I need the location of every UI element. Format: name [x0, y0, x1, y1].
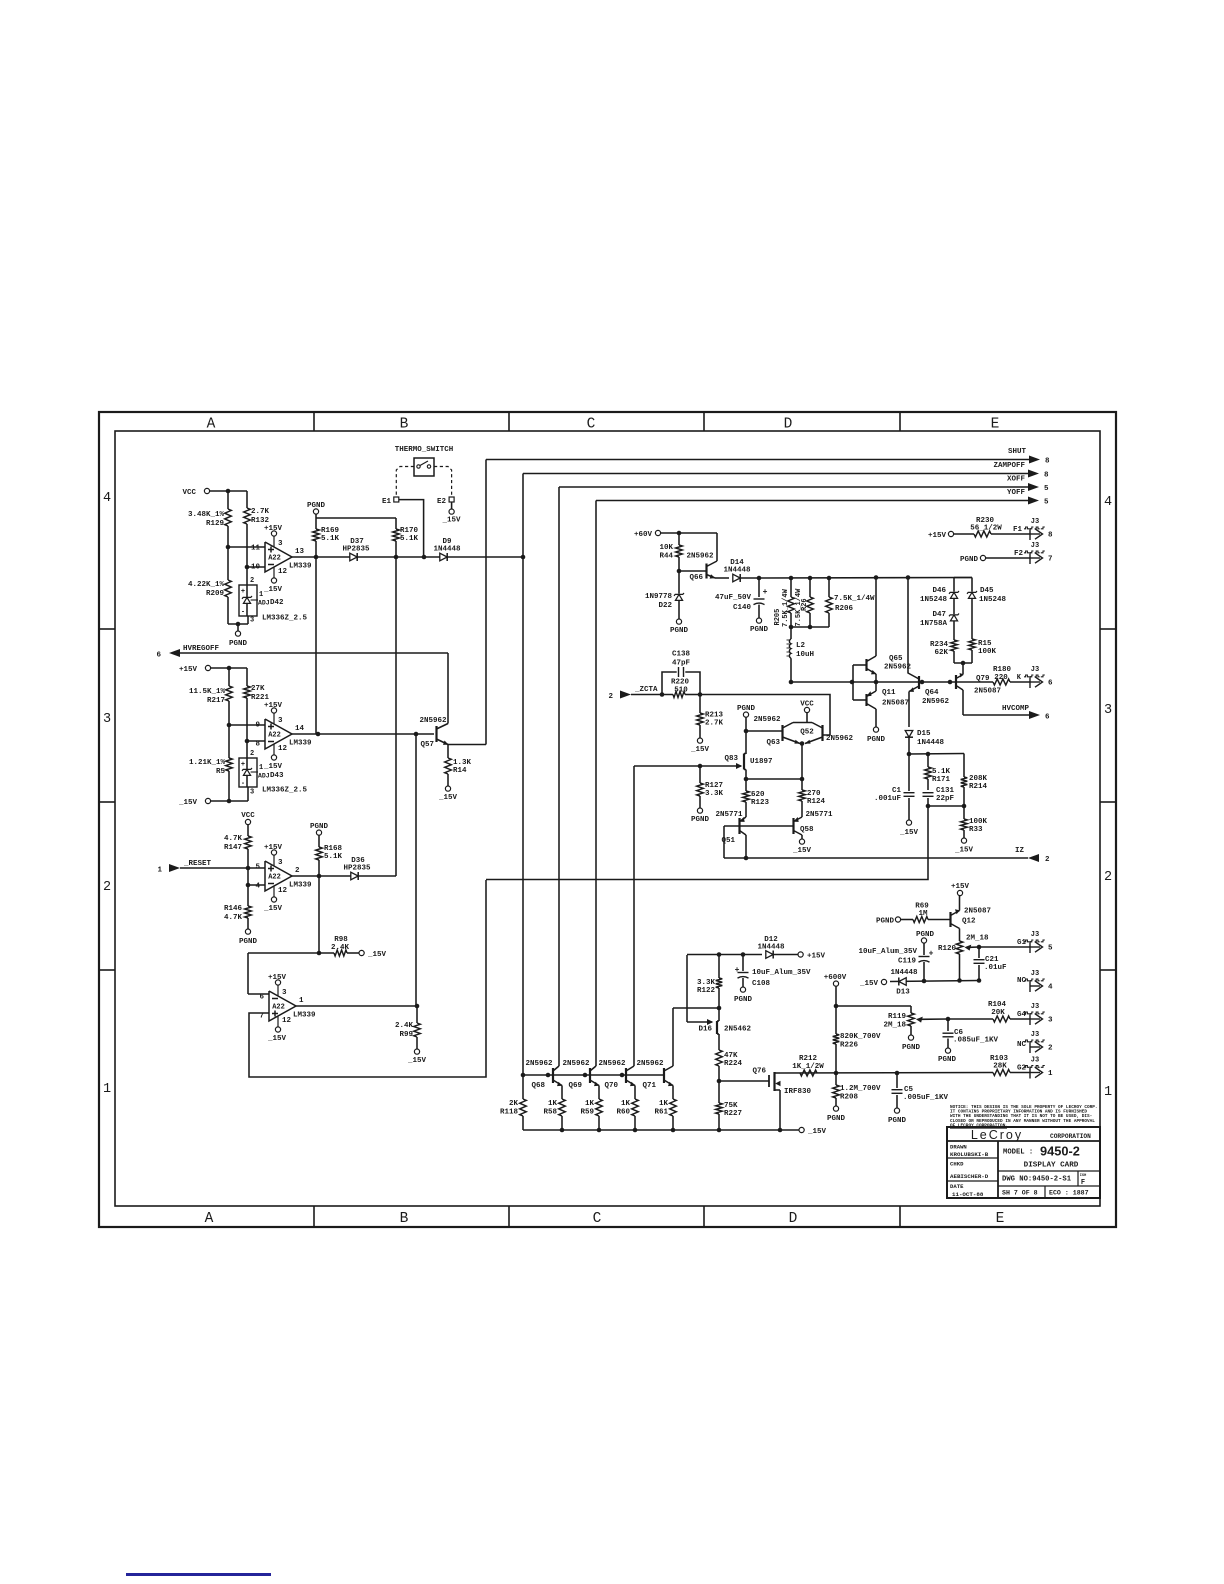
svg-text:3.3K: 3.3K: [697, 979, 716, 987]
svg-text:_15V: _15V: [263, 905, 283, 913]
zener D45 1N5248: [954, 577, 972, 579]
svg-text:PGND: PGND: [888, 1117, 907, 1125]
inductor L2 10uH: [790, 627, 792, 639]
terminal E1: [394, 497, 399, 502]
svg-text:R234: R234: [930, 641, 949, 649]
svg-text:9450-2: 9450-2: [1040, 1144, 1080, 1159]
svg-text:D: D: [784, 417, 793, 433]
wire comparator2 output: [292, 733, 434, 735]
svg-text:PGND: PGND: [229, 640, 248, 648]
svg-text:1: 1: [259, 764, 263, 772]
svg-text:+: +: [241, 761, 245, 769]
svg-text:+: +: [735, 966, 740, 975]
transistor D16 2N5462 jfet: [716, 1021, 718, 1034]
power terminal _15V bottom bus: [799, 1127, 804, 1132]
wire +15V rail block B: [211, 667, 247, 669]
svg-text:PGND: PGND: [310, 823, 329, 831]
wire _15V bottom bus: [523, 1129, 799, 1131]
wire E1 to comparator output: [399, 500, 424, 557]
svg-text:7.5K_1/4W: 7.5K_1/4W: [834, 595, 875, 603]
svg-text:2N5771: 2N5771: [805, 811, 833, 819]
svg-text:R33: R33: [969, 826, 983, 834]
svg-text:C119: C119: [898, 958, 917, 966]
svg-text:2N5962: 2N5962: [562, 1060, 590, 1068]
transistor Q71 2N5962: [663, 1068, 665, 1083]
svg-text:_15V: _15V: [263, 586, 283, 594]
svg-text:3: 3: [250, 789, 254, 797]
svg-text:270: 270: [807, 790, 821, 798]
svg-text:R180: R180: [993, 666, 1012, 674]
svg-text:R5: R5: [216, 768, 226, 776]
svg-text:+15V: +15V: [264, 702, 283, 710]
power terminal +15V D12: [798, 952, 803, 957]
wire Q65 Q11 base bracket: [852, 665, 854, 700]
ground terminal PGND C140: [756, 618, 761, 623]
power terminal _15V R14: [445, 786, 450, 791]
svg-text:1N4448: 1N4448: [890, 969, 918, 977]
ground terminal PGND R146: [245, 929, 250, 934]
svg-text:2M_18: 2M_18: [883, 1022, 906, 1030]
svg-text:R214: R214: [969, 783, 988, 791]
svg-text:1N4448: 1N4448: [433, 546, 461, 554]
svg-text:1N4448: 1N4448: [723, 567, 751, 575]
transistor Q83 U1897 jfet: [743, 754, 745, 770]
svg-text:Q11: Q11: [882, 689, 896, 697]
svg-text:4: 4: [1104, 495, 1112, 510]
svg-text:1N5248: 1N5248: [979, 596, 1007, 604]
svg-text:_15V: _15V: [407, 1057, 427, 1065]
svg-text:LM339: LM339: [289, 563, 312, 571]
svg-text:5: 5: [1044, 499, 1049, 507]
resistor R220: [660, 692, 665, 697]
svg-text:1N5248: 1N5248: [920, 596, 948, 604]
svg-text:R98: R98: [334, 936, 348, 944]
power terminal _15V block B: [246, 741, 248, 758]
svg-text:LM339: LM339: [289, 882, 312, 890]
svg-text:3: 3: [278, 859, 283, 867]
resistor R205: [790, 578, 792, 597]
svg-text:G1: G1: [1017, 939, 1027, 947]
svg-text:R132: R132: [251, 517, 270, 525]
svg-text:_15V: _15V: [267, 1035, 287, 1043]
transistor Q12 2N5087: [949, 912, 951, 927]
wire F2: [986, 557, 1030, 559]
svg-text:_ZCTA: _ZCTA: [634, 686, 658, 694]
svg-text:B: B: [400, 417, 409, 433]
border frame inner: [115, 431, 1100, 1206]
svg-text:7.5K_1/4W: 7.5K_1/4W: [782, 588, 790, 627]
svg-text:_RESET: _RESET: [183, 860, 212, 868]
svg-text:F1: F1: [1013, 526, 1023, 534]
svg-text:11-OCT-88: 11-OCT-88: [952, 1191, 984, 1198]
wire Q65 collector: [875, 578, 877, 657]
svg-text:1K_1/2W: 1K_1/2W: [792, 1063, 824, 1071]
wire Q71 net to R122 D16 node: [673, 1007, 719, 1009]
svg-text:IZ: IZ: [1015, 847, 1025, 855]
resistor R123: [745, 779, 747, 791]
resistor R26: [809, 578, 811, 597]
svg-text:4.22K_1%: 4.22K_1%: [188, 581, 225, 589]
signal HVCOMP: [963, 714, 1029, 716]
svg-text:2.7K: 2.7K: [705, 720, 724, 728]
resistor R221: [246, 668, 248, 686]
svg-text:11.5K_1%: 11.5K_1%: [189, 688, 226, 696]
resistor R132: [246, 491, 248, 508]
svg-text:Q52: Q52: [800, 729, 814, 737]
wire R98 node to op-amp4 pin 6: [247, 953, 249, 994]
svg-text:HVCOMP: HVCOMP: [1002, 705, 1030, 713]
resistor R98: [248, 952, 334, 954]
resistor R103 28K: [993, 1070, 1010, 1076]
svg-text:47pF: 47pF: [672, 660, 691, 668]
svg-text:ZAMPOFF: ZAMPOFF: [993, 462, 1025, 470]
svg-text:Q68: Q68: [531, 1082, 545, 1090]
svg-text:ADJ: ADJ: [258, 600, 270, 607]
svg-text:12: 12: [278, 568, 288, 576]
resistor R169: [315, 514, 317, 529]
svg-text:3: 3: [1104, 703, 1112, 718]
power terminal _15V R33: [961, 838, 966, 843]
resistor R234: [951, 640, 958, 651]
svg-text:+15V: +15V: [951, 883, 970, 891]
svg-text:E: E: [991, 417, 1000, 433]
svg-text:L2: L2: [796, 642, 806, 650]
wire HV output node: [780, 1072, 993, 1075]
resistor R69 1M: [895, 917, 900, 922]
transistor Q70 2N5962: [625, 1068, 627, 1083]
svg-text:1.21K_1%: 1.21K_1%: [189, 759, 226, 767]
svg-text:1: 1: [259, 591, 263, 599]
potentiometer R120 2M_18: [956, 941, 963, 954]
resistor R230: [954, 533, 974, 535]
wire diff pair collectors to VCC: [793, 722, 812, 724]
svg-text:Q70: Q70: [604, 1082, 618, 1090]
power terminal _15V D13: [881, 979, 886, 984]
transistor Q65 2N5962: [865, 659, 867, 671]
svg-text:R224: R224: [724, 1060, 743, 1068]
resistor R127: [699, 766, 701, 783]
transistor Q66 2N5962: [677, 569, 682, 574]
svg-text:R26: R26: [801, 598, 809, 611]
svg-text:A22: A22: [268, 874, 281, 882]
svg-text:Q58: Q58: [800, 826, 814, 834]
svg-text:E: E: [996, 1211, 1005, 1227]
wire G4 line: [948, 1018, 993, 1020]
svg-text:4.7K: 4.7K: [224, 835, 243, 843]
svg-text:+600V: +600V: [824, 974, 847, 982]
svg-text:R99: R99: [399, 1031, 413, 1039]
zener D47 1N758A: [950, 615, 957, 621]
wire comparator3 output: [292, 875, 396, 877]
svg-text:2.7K: 2.7K: [251, 508, 270, 516]
svg-text:R213: R213: [705, 712, 724, 720]
svg-text:J3: J3: [1031, 970, 1039, 978]
power terminal _15V C1: [906, 820, 911, 825]
svg-text:J3: J3: [1031, 931, 1039, 939]
svg-text:D13: D13: [896, 989, 910, 997]
svg-text:56_1/2W: 56_1/2W: [970, 525, 1002, 533]
svg-text:2N5962: 2N5962: [598, 1060, 626, 1068]
svg-text:J3: J3: [1031, 666, 1039, 674]
svg-text:1K: 1K: [621, 1100, 631, 1108]
svg-text:A22: A22: [268, 555, 281, 563]
svg-text:1: 1: [157, 867, 162, 875]
wire R168 node down to R98: [318, 876, 320, 953]
resistor R61 1K: [670, 1099, 677, 1116]
svg-text:PGND: PGND: [691, 816, 710, 824]
wire +60V supply node: [759, 577, 972, 580]
svg-text:1N4448: 1N4448: [757, 944, 785, 952]
svg-text:A22: A22: [272, 1004, 285, 1012]
wire to op-amp pin 8: [245, 739, 250, 744]
resistor R5: [228, 725, 230, 758]
svg-text:D46: D46: [932, 587, 946, 595]
svg-text:R146: R146: [224, 905, 243, 913]
svg-text:_15V: _15V: [438, 794, 458, 802]
transistor Q52 2N5962: [821, 725, 823, 741]
svg-text:AEBISCHER-D: AEBISCHER-D: [950, 1173, 989, 1180]
svg-text:1.2M_700V: 1.2M_700V: [840, 1085, 881, 1093]
wire zener string bottom: [954, 662, 972, 664]
svg-text:PGND: PGND: [902, 1044, 921, 1052]
diode D15 1N4448: [905, 731, 913, 738]
svg-text:3: 3: [278, 717, 283, 725]
power terminal VCC block C: [245, 819, 250, 824]
svg-text:R212: R212: [799, 1055, 818, 1063]
resistor R227 75K: [718, 1081, 720, 1103]
svg-text:R15: R15: [978, 640, 992, 648]
svg-text:2N5087: 2N5087: [974, 688, 1001, 696]
resistor R15: [969, 639, 976, 650]
wire thermo switch left dashed: [396, 467, 414, 497]
svg-text:3: 3: [103, 712, 111, 727]
svg-text:DWG NO:9450-2-S1: DWG NO:9450-2-S1: [1002, 1176, 1072, 1184]
ground terminal PGND R169: [313, 509, 318, 514]
resistor R122 3.3K: [718, 955, 720, 979]
svg-text:6: 6: [1048, 680, 1053, 688]
svg-text:LM336Z_2.5: LM336Z_2.5: [262, 615, 308, 623]
svg-text:1: 1: [299, 997, 304, 1005]
ground terminal PGND R127: [697, 808, 702, 813]
svg-text:Q12: Q12: [962, 918, 976, 926]
svg-text:HP2835: HP2835: [342, 546, 370, 554]
transistor Q64 2N5962: [918, 676, 920, 689]
wire PGND bottom block A: [246, 567, 248, 585]
diode D37 HP2835: [350, 553, 357, 561]
diode D36 HP2835: [351, 872, 358, 880]
svg-text:1K: 1K: [659, 1100, 669, 1108]
wire thermo switch right dashed: [434, 467, 452, 497]
svg-text:R120: R120: [938, 945, 957, 953]
svg-text:2N5962: 2N5962: [686, 553, 714, 561]
svg-text:+15V: +15V: [268, 974, 287, 982]
ground terminal PGND C6: [945, 1048, 950, 1053]
wire Q57 base net down to op-amp4 output: [415, 734, 417, 1006]
resistor R124: [801, 779, 803, 790]
border frame outer: [99, 412, 1116, 1227]
op-amp U A22a LM339: [265, 542, 292, 572]
svg-text:75K: 75K: [724, 1102, 738, 1110]
svg-text:R170: R170: [400, 527, 419, 535]
svg-text:C131: C131: [936, 787, 955, 795]
svg-text:_15V: _15V: [899, 829, 919, 837]
svg-text:R226: R226: [840, 1042, 859, 1050]
power terminal _15V R213: [697, 738, 702, 743]
svg-text:12: 12: [282, 1017, 292, 1025]
svg-text:PGND: PGND: [876, 918, 895, 926]
svg-text:1K: 1K: [548, 1100, 558, 1108]
svg-text:4: 4: [255, 883, 260, 891]
resistor R213: [699, 695, 701, 714]
zener D46 1N5248: [907, 578, 909, 672]
svg-text:_15V: _15V: [690, 746, 710, 754]
svg-text:CORPORATION: CORPORATION: [1050, 1133, 1091, 1140]
svg-text:ISH: ISH: [1080, 1174, 1086, 1178]
wire op-amp4 output: [296, 1005, 417, 1007]
svg-text:C140: C140: [733, 604, 752, 612]
potentiometer R119 2M_18: [908, 1013, 915, 1026]
svg-text:100K: 100K: [978, 648, 997, 656]
svg-text:4.7K: 4.7K: [224, 914, 243, 922]
svg-text:100K: 100K: [969, 818, 988, 826]
svg-text:E2: E2: [437, 498, 447, 506]
power terminal _15V R99: [414, 1049, 419, 1054]
svg-text:PGND: PGND: [960, 556, 979, 564]
resistor R206: [828, 578, 830, 597]
svg-text:.005uF_1KV: .005uF_1KV: [903, 1094, 949, 1102]
svg-text:Q83: Q83: [724, 755, 738, 763]
svg-text:_15V: _15V: [792, 847, 812, 855]
svg-text:D43: D43: [270, 772, 284, 780]
diode D12 1N4448: [686, 955, 688, 1022]
svg-text:LM339: LM339: [293, 1012, 316, 1020]
svg-text:D: D: [789, 1211, 798, 1227]
wire main driver node: [791, 681, 956, 683]
svg-text:D15: D15: [917, 730, 931, 738]
diode D14 1N4448: [715, 577, 729, 579]
wire comparator1 output: [292, 556, 523, 558]
svg-text:DRAWN: DRAWN: [950, 1144, 967, 1151]
svg-text:220: 220: [994, 674, 1008, 682]
wire mirror top: [746, 778, 802, 780]
svg-text:D16: D16: [698, 1026, 712, 1034]
svg-text:R220: R220: [671, 679, 690, 687]
svg-text:SHUT: SHUT: [1008, 448, 1027, 456]
svg-text:_15V: _15V: [441, 517, 461, 525]
wire Q70 net to Q83 gate: [634, 765, 700, 767]
svg-text:9: 9: [255, 722, 260, 730]
svg-text:HVREGOFF: HVREGOFF: [183, 645, 220, 653]
svg-text:Q76: Q76: [752, 1068, 766, 1076]
svg-text:_15V: _15V: [263, 763, 283, 771]
svg-text:22pF: 22pF: [936, 795, 955, 803]
svg-text:6: 6: [259, 994, 264, 1002]
resistor R224 47K: [716, 1050, 723, 1066]
svg-text:27K: 27K: [251, 685, 265, 693]
svg-text:PGND: PGND: [239, 938, 258, 946]
svg-text:R208: R208: [840, 1094, 859, 1102]
svg-text:R61: R61: [654, 1109, 668, 1117]
svg-text:2N5962: 2N5962: [826, 735, 854, 743]
resistor R180: [956, 681, 993, 683]
svg-text:1: 1: [1104, 1085, 1112, 1100]
resistor R170: [395, 518, 397, 529]
svg-text:R168: R168: [324, 845, 343, 853]
op-amp U A22c LM339: [265, 861, 292, 891]
svg-text:VCC: VCC: [800, 701, 814, 709]
svg-text:5: 5: [255, 864, 260, 872]
svg-text:R227: R227: [724, 1110, 742, 1118]
svg-text:1K: 1K: [585, 1100, 595, 1108]
svg-text:2: 2: [250, 577, 254, 585]
svg-text:HP2835: HP2835: [343, 865, 371, 873]
svg-text:+15V: +15V: [928, 532, 947, 540]
svg-text:5.1K: 5.1K: [321, 535, 340, 543]
svg-text:2: 2: [250, 750, 254, 758]
wire YOFF vertical: [595, 501, 597, 1067]
svg-text:C138: C138: [672, 651, 691, 659]
blue pen mark bottom left: [126, 1573, 271, 1576]
ground terminal PGND block A: [235, 631, 240, 636]
svg-text:2: 2: [295, 867, 300, 875]
svg-text:U1897: U1897: [750, 758, 773, 766]
capacitor C108 10uF_Alum_35V: [742, 955, 744, 972]
svg-text:+15V: +15V: [179, 666, 198, 674]
svg-text:A22: A22: [268, 732, 281, 740]
svg-text:2N5962: 2N5962: [922, 698, 950, 706]
svg-text:13: 13: [295, 548, 305, 556]
power terminal +60V: [655, 530, 660, 535]
svg-text:2: 2: [1104, 870, 1112, 885]
svg-text:PGND: PGND: [938, 1056, 957, 1064]
wire Q57 emitter to SHUT line: [448, 744, 486, 746]
power terminal VCC diff pair: [804, 707, 809, 712]
svg-text:2N5087: 2N5087: [964, 908, 991, 916]
svg-text:D47: D47: [932, 611, 946, 619]
wire feedback bus to op-amp4: [486, 806, 928, 880]
svg-text:7: 7: [1048, 556, 1053, 564]
svg-text:C108: C108: [752, 980, 771, 988]
svg-text:10uH: 10uH: [796, 651, 814, 659]
svg-text:2N5962: 2N5962: [525, 1060, 553, 1068]
svg-text:+15V: +15V: [264, 525, 283, 533]
svg-text:_15V: _15V: [954, 847, 974, 855]
svg-text:J3: J3: [1031, 1003, 1039, 1011]
svg-text:PGND: PGND: [307, 502, 326, 510]
svg-text:62K: 62K: [934, 649, 948, 657]
transistor Q51 2N5771: [738, 818, 740, 834]
wire _15V D13 rail: [890, 981, 979, 982]
svg-text:Q63: Q63: [766, 739, 780, 747]
transistor Q79 2N5087: [955, 675, 957, 689]
svg-text:CHKD: CHKD: [950, 1161, 964, 1168]
svg-text:R123: R123: [751, 799, 770, 807]
svg-text:510: 510: [674, 687, 688, 695]
capacitor C140 47uF_50V: [758, 578, 760, 597]
svg-text:14: 14: [295, 725, 305, 733]
svg-text:47K: 47K: [724, 1052, 738, 1060]
diode D9 1N4448: [440, 553, 447, 561]
svg-text:2N5771: 2N5771: [715, 811, 743, 819]
svg-text:R104: R104: [988, 1001, 1007, 1009]
resistor R168: [318, 835, 320, 847]
wire diff pair emitters: [800, 741, 805, 746]
svg-text:12: 12: [278, 745, 288, 753]
svg-text:2N5962: 2N5962: [419, 717, 447, 725]
svg-text:3.3K: 3.3K: [705, 790, 724, 798]
svg-text:MODEL :: MODEL :: [1003, 1149, 1033, 1157]
op-amp U A22d LM339: [269, 991, 296, 1021]
